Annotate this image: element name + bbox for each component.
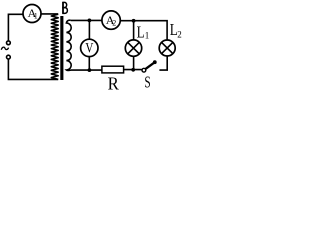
svg-text:2: 2: [177, 30, 182, 40]
svg-text:S: S: [144, 73, 150, 90]
svg-text:2: 2: [112, 19, 116, 28]
svg-text:1: 1: [145, 31, 150, 41]
svg-text:R: R: [108, 74, 119, 90]
svg-text:V: V: [85, 41, 94, 57]
svg-text:1: 1: [34, 11, 38, 20]
svg-text:L: L: [137, 22, 145, 41]
